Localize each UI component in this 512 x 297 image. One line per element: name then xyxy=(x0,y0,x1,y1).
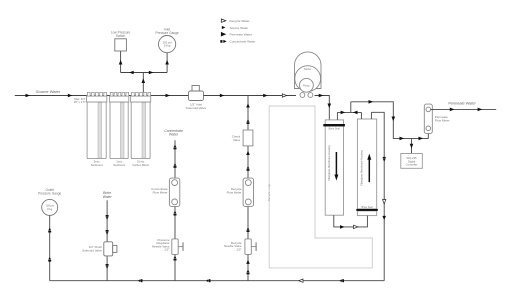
svg-text:1/2": 1/2" xyxy=(236,248,241,252)
svg-text:Recycle Loop: Recycle Loop xyxy=(267,184,271,201)
wire arrow concentrate drop filled xyxy=(382,216,386,220)
wire concentrate column xyxy=(174,140,176,280)
svg-text:Fiberglass Membrane Housing: Fiberglass Membrane Housing xyxy=(327,145,331,181)
svg-text:20" x 2.5": 20" x 2.5" xyxy=(74,100,86,104)
inlet pressure gauge xyxy=(159,36,176,53)
wire arrow conc col 3 xyxy=(174,256,177,258)
svg-text:Permeate Water: Permeate Water xyxy=(230,33,252,37)
svg-text:Source Water: Source Water xyxy=(230,26,249,30)
wire pump outlet xyxy=(315,96,330,120)
wire arrow permeate out 1 xyxy=(450,108,455,112)
pump motor assembly xyxy=(295,52,322,97)
wire mark concentrate drop 1 xyxy=(383,157,386,159)
outlet pressure gauge xyxy=(38,188,61,215)
wire permeate outlet xyxy=(431,108,497,110)
wire drain bottom line xyxy=(50,280,385,282)
wire arrow recycle open feed 3 xyxy=(282,94,286,97)
wire arrow drain open xyxy=(299,279,303,282)
wire vessel1 bottom to vessel2 bottom xyxy=(334,215,368,227)
recycle loop boundary path xyxy=(269,106,372,268)
wire arrow permeate v2 xyxy=(353,111,358,115)
wire arrow recycle col bottom xyxy=(246,260,250,264)
wire arrow source feed xyxy=(26,94,31,98)
svg-text:Pressure Gauge: Pressure Gauge xyxy=(38,192,61,196)
node recycle loop label xyxy=(267,185,273,201)
recycle needle valve xyxy=(224,239,256,255)
svg-text:8 kg: 8 kg xyxy=(47,207,52,211)
wire arrow recycle col mark5 xyxy=(247,119,250,121)
wire arrow left branch xyxy=(129,71,134,75)
wire source feed main line xyxy=(15,95,189,97)
legend concentrate water symbol xyxy=(220,40,222,43)
legend recycle water symbol xyxy=(221,19,226,22)
wire arrow feed before filters xyxy=(68,94,73,98)
wire arrow gauge riser 2 xyxy=(48,257,51,259)
svg-text:1/2": 1/2" xyxy=(164,248,169,252)
membrane vessel 2 xyxy=(356,119,378,216)
svg-text:Sediment: Sediment xyxy=(113,163,125,167)
wire arrow permeate out 2 xyxy=(478,108,483,112)
membrane vessel 1 xyxy=(323,120,345,215)
wire arrow permeate bottom 2 xyxy=(419,137,424,141)
svg-text:Pressure Gauge: Pressure Gauge xyxy=(155,31,178,35)
wire arrow drain 3 xyxy=(339,279,341,282)
filter housing 2 sediment xyxy=(109,92,128,166)
wire arrow recycle col mark4 xyxy=(246,151,250,155)
pressure regulator needle valve xyxy=(152,238,183,255)
wire arrow permeate bottom 1 xyxy=(400,137,405,141)
wire arrow feed 1 xyxy=(220,94,225,98)
svg-text:Water: Water xyxy=(169,133,179,137)
wire arrow conc col 2 xyxy=(174,211,177,213)
filter housing 3 carbon xyxy=(131,92,151,166)
svg-text:Solenoid Valve: Solenoid Valve xyxy=(186,106,207,110)
flush solenoid valve xyxy=(82,242,117,256)
wire arrow concentrate drop open xyxy=(383,200,386,204)
svg-text:Sediment: Sediment xyxy=(91,163,103,167)
svg-text:Flow Meter: Flow Meter xyxy=(435,119,450,123)
wire riser to instruments xyxy=(121,51,168,93)
wire feed after filters xyxy=(151,95,189,97)
svg-text:Recycle Water: Recycle Water xyxy=(230,19,250,23)
wire arrow tds drop xyxy=(410,144,414,149)
wire arrow feed drop xyxy=(328,104,332,109)
wire outlet gauge riser xyxy=(49,215,51,280)
wire permeate header xyxy=(337,102,428,139)
svg-text:Concentrate Water: Concentrate Water xyxy=(230,40,256,44)
wire arrow cross filled xyxy=(340,225,345,229)
recycle flow meter xyxy=(227,178,254,206)
controller box xyxy=(401,154,423,169)
wire arrow after filters xyxy=(166,94,171,98)
svg-text:Carbon Block: Carbon Block xyxy=(132,163,149,167)
wire feed to pump xyxy=(204,95,297,97)
wire arrow recycle col top xyxy=(246,103,250,107)
svg-text:Source Water: Source Water xyxy=(36,89,61,94)
svg-text:Brine Seal: Brine Seal xyxy=(329,127,340,130)
wire arrow flush 1 xyxy=(106,215,109,217)
wire arrow recycle col mark3 xyxy=(247,166,250,168)
wire arrow up to switch xyxy=(119,60,123,65)
wire concentrate header xyxy=(371,112,384,280)
filter housing 1 sediment xyxy=(87,92,107,166)
svg-text:Solenoid Valve: Solenoid Valve xyxy=(82,248,102,252)
wire tds sensor drop xyxy=(411,138,413,153)
wire arrow conc col 1 xyxy=(174,163,177,165)
wire arrow recycle col mark1 xyxy=(247,270,250,272)
low pressure switch xyxy=(115,39,127,51)
svg-text:Switch: Switch xyxy=(116,34,126,38)
svg-text:Water: Water xyxy=(103,195,113,199)
wire arrow feed 2 xyxy=(263,94,268,98)
solenoid valve inlet xyxy=(186,86,207,111)
svg-text:Pump: Pump xyxy=(303,84,310,87)
svg-text:Permeate Water: Permeate Water xyxy=(448,101,476,105)
svg-text:Brine Seal: Brine Seal xyxy=(361,206,372,209)
legend permeate water symbol xyxy=(221,32,226,37)
wire arrow up center riser xyxy=(142,78,146,83)
legend xyxy=(220,19,255,44)
svg-text:Controller: Controller xyxy=(406,163,418,167)
wire arrow gauge riser 1 xyxy=(48,228,51,230)
svg-text:Valve: Valve xyxy=(233,138,241,142)
wire arrow drain 2 xyxy=(206,279,208,282)
wire arrow flush 2 xyxy=(106,230,109,232)
wire arrow pump outlet xyxy=(319,94,324,98)
wire arrow recycle col mark2 xyxy=(247,227,250,229)
permeate flow meter xyxy=(424,104,449,133)
svg-text:Flow Meter: Flow Meter xyxy=(227,191,242,195)
svg-text:Motor: Motor xyxy=(304,67,311,71)
wire arrow permeate top xyxy=(369,100,374,104)
wire arrow permeate drop xyxy=(392,117,396,122)
wire arrow up to gauge xyxy=(165,60,169,65)
wire flush column xyxy=(106,200,108,280)
concentrate flow meter xyxy=(151,178,180,206)
legend source water symbol xyxy=(222,26,226,29)
wire arrow permeate v1 xyxy=(341,111,346,115)
wire arrow drain 1 xyxy=(138,279,140,282)
svg-text:Flow Meter: Flow Meter xyxy=(153,190,168,194)
wire arrow right branch xyxy=(149,71,154,75)
svg-text:Fiberglass Membrane Housing: Fiberglass Membrane Housing xyxy=(359,150,363,186)
wire arrow cross open xyxy=(354,225,358,228)
check valve xyxy=(232,130,253,146)
wire arrow conc col 0 xyxy=(174,145,177,147)
wire arrow flush 3 xyxy=(106,264,109,266)
svg-text:14 kg: 14 kg xyxy=(164,44,171,48)
wire recycle column xyxy=(247,96,249,281)
